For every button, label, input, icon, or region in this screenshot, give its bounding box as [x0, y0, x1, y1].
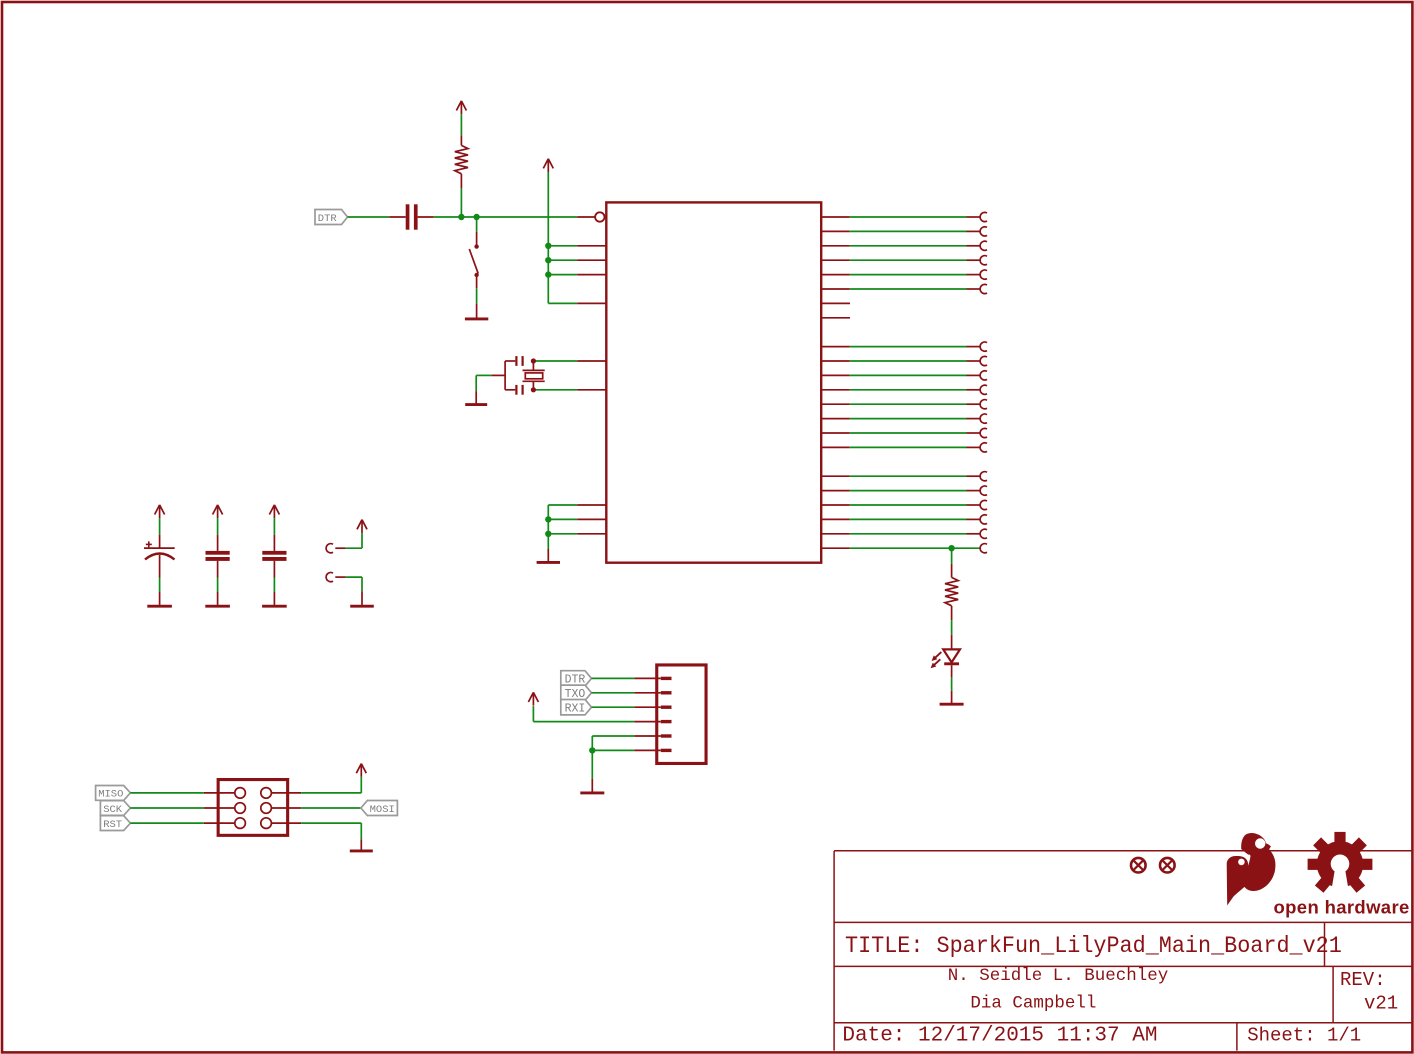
pin connector ADC7: [967, 428, 988, 437]
wire PWR- to ground: [346, 577, 362, 591]
U1 pin ADC7 stub: [821, 432, 850, 434]
resonator Y1 link top: [532, 361, 534, 370]
pin connector PWR-: [326, 573, 333, 582]
pin connector PD5: [967, 256, 988, 265]
pin connector ADC6: [967, 414, 988, 423]
svg-text:Dia Campbell: Dia Campbell: [970, 994, 1096, 1014]
wire PD0 net: [850, 547, 980, 549]
U1 pin PB1 stub: [821, 360, 850, 362]
switch S1 lead top: [476, 232, 478, 247]
U1 pin PD6 stub: [821, 274, 850, 276]
pin connector PC4 lead: [967, 518, 981, 520]
wire R2 to LED1: [951, 620, 953, 635]
node XTAL2 junction: [531, 387, 536, 392]
J1 pin 4 pad: [661, 720, 672, 723]
LED1 lead top: [951, 635, 953, 650]
pin connector PC2 lead: [967, 490, 981, 492]
node XTAL1 junction: [531, 358, 536, 363]
JP1 MOSI pin stub right: [271, 807, 301, 809]
rev value text: [1364, 993, 1398, 1015]
wire PB6 net: [850, 230, 967, 232]
wire XTAL2 net: [533, 389, 577, 391]
pin connector PB5: [967, 212, 988, 221]
svg-text:MOSI: MOSI: [370, 804, 395, 816]
pin connector PB1: [967, 356, 988, 365]
wire rail to U1 AREF pin: [548, 274, 577, 276]
resistor R2: [945, 577, 958, 605]
U1 pin PB7 stub: [821, 245, 850, 247]
LED D1 cathode bar: [944, 662, 959, 665]
title block frame: [834, 851, 1411, 1051]
wire JP1 GND: [301, 823, 361, 839]
pin connector PB2: [967, 371, 988, 380]
capacitor C2 (polarized): [144, 541, 175, 559]
net flag DTR at J1: [561, 671, 592, 687]
wire LED1 to ground: [951, 677, 953, 690]
wire DTR to J1: [592, 677, 635, 679]
resistor R1 lead bottom: [460, 174, 462, 189]
ground under crystal caps: [465, 403, 487, 406]
svg-text:Sheet: 1/1: Sheet: 1/1: [1247, 1025, 1361, 1047]
LED D1 emission arrow 2: [931, 659, 941, 668]
U1 pin PB6 stub: [821, 230, 850, 232]
wire J1 GND1: [592, 749, 634, 751]
power VCC at C2: [155, 505, 165, 535]
wire junction to R2: [951, 548, 953, 564]
date text: [842, 1025, 1157, 1048]
wire MISO to JP1: [130, 792, 203, 794]
pin connector PC3: [980, 500, 987, 509]
node RESET junction at S1: [473, 214, 479, 220]
author text line 2: [970, 994, 1096, 1014]
pin connector PC1: [980, 472, 987, 481]
node GND rail junction a: [545, 516, 551, 522]
pin connector PB4: [967, 400, 988, 409]
pin connector PB0: [967, 342, 988, 351]
J1 pin 3 pad: [661, 706, 672, 709]
wire rail to U1 AVCC pin: [548, 259, 577, 261]
wire SCK to JP1: [130, 807, 203, 809]
U1 pin PC5 stub: [821, 533, 850, 535]
wire PD5 net: [850, 259, 967, 261]
LED D1 emission arrow 1: [932, 652, 942, 661]
ground lead crystal: [475, 391, 477, 404]
ground under S1: [465, 317, 488, 320]
capacitor C5 (XTAL2 load): [515, 385, 523, 395]
net flag SCK: [100, 801, 130, 816]
pin connector PB7: [967, 241, 988, 250]
U1 pin PC4 stub: [821, 518, 850, 520]
ground lead PWR-: [361, 591, 363, 605]
wire PC4 net: [850, 518, 967, 520]
net flag MOSI: [361, 801, 398, 816]
wire RESET node to S1: [476, 217, 478, 232]
U1 VCC pin stub: [577, 245, 606, 247]
capacitor C1 lead right: [418, 216, 434, 218]
J1 pin 2 stub: [634, 692, 661, 694]
U1 pin PD7 stub: [821, 288, 850, 290]
wire VCC rail vertical: [548, 172, 577, 303]
JP1 pin circle right row 3: [261, 818, 272, 829]
ground under LED: [940, 703, 964, 706]
wire PD7 net: [850, 288, 967, 290]
wire S1 to ground: [476, 288, 478, 304]
wire cap bus to ground: [476, 375, 505, 391]
svg-text:DTR: DTR: [318, 213, 338, 225]
wire J1 ground drop: [591, 750, 593, 778]
wire PB5 net: [850, 216, 967, 218]
capacitor C5 lead: [505, 389, 515, 391]
U1 pin PB5 stub: [821, 216, 850, 218]
capacitor C2 lead bottom: [159, 555, 161, 578]
JP1 MISO pin stub: [204, 792, 235, 794]
JP1 VCC pin stub right: [271, 792, 301, 794]
JP1 GND pin stub right: [271, 822, 301, 824]
JP1 RST pin stub: [204, 822, 235, 824]
U1 pin ADC stub: [821, 317, 850, 319]
J1 pin 5 stub: [634, 735, 661, 737]
ground under C6: [262, 605, 287, 608]
logo OSHW gear: [1308, 832, 1373, 893]
node LED branch junction: [948, 545, 954, 551]
wire R1 to RESET node: [460, 188, 462, 217]
capacitor C4 lead: [505, 360, 515, 362]
ground under PWR-: [350, 605, 374, 608]
node GND rail junction b: [545, 531, 551, 537]
wire cap bus: [504, 361, 506, 390]
pin connector PC2: [980, 486, 987, 495]
resonator Y1 link bottom: [532, 381, 534, 390]
PWR+ pin stub: [335, 547, 345, 549]
ground lead C6: [273, 592, 275, 605]
node VCC rail junction pin AREF: [545, 271, 551, 277]
resistor R1 lead top: [460, 135, 462, 145]
svg-text:Date: 12/17/2015 11:37 AM: Date: 12/17/2015 11:37 AM: [842, 1025, 1157, 1048]
PWR- pin stub: [335, 576, 345, 578]
ground under C2: [147, 605, 172, 608]
net flag MISO: [96, 786, 131, 801]
svg-text:N. Seidle L. Buechley: N. Seidle L. Buechley: [948, 966, 1169, 986]
wire PWR+ to VCC: [346, 533, 362, 549]
U1 GND3 pin stub: [577, 533, 606, 535]
resonator Y1: [523, 370, 545, 381]
LED D1 triangle: [943, 649, 960, 662]
pin connector PB6: [967, 227, 988, 236]
wire RST to JP1: [130, 822, 203, 824]
capacitor C4 (XTAL1 load): [515, 356, 523, 366]
pin connector PB3: [967, 385, 988, 394]
wire PB3 net: [850, 389, 967, 391]
pin connector PD6: [967, 270, 988, 279]
wire JP1 MOSI: [301, 807, 361, 809]
pin connector PD0: [980, 544, 987, 553]
ground lead J1: [591, 779, 593, 793]
net flag DTR (reset line): [315, 210, 348, 225]
op-amp U1 (ATmega MCU box): [606, 202, 821, 562]
svg-text:RST: RST: [103, 819, 122, 831]
connector J1 (FTDI header): [657, 665, 706, 764]
capacitor C1 lead left: [389, 216, 405, 218]
pin connector PC5 lead: [967, 533, 981, 535]
capacitor C6: [262, 551, 286, 561]
svg-text:MISO: MISO: [98, 789, 123, 801]
wire ADC7 net: [850, 432, 967, 434]
power VCC at PWR+: [357, 520, 367, 533]
J1 pin 5 pad: [661, 734, 672, 737]
JP1 pin circle left row 1: [235, 788, 246, 799]
wire rail to U1 VCC pin: [548, 245, 577, 247]
power VCC at JP1: [356, 764, 366, 777]
U1 pin 6 stub: [577, 302, 606, 304]
wire PB2 net: [850, 374, 967, 376]
net flag RXI at J1: [561, 700, 592, 716]
svg-text:open hardware: open hardware: [1274, 897, 1410, 918]
wire PB7 net: [850, 245, 967, 247]
U1 AREF pin stub: [577, 274, 606, 276]
sheet text: [1247, 1025, 1361, 1047]
wire XTAL1 net: [533, 360, 577, 362]
ground lead U1: [547, 549, 549, 562]
wire GND3 to rail: [548, 533, 577, 535]
svg-text:REV:: REV:: [1340, 969, 1386, 991]
wire PD6 net: [850, 274, 967, 276]
JP1 pin circle right row 2: [261, 803, 272, 814]
wire GND2 to rail: [548, 518, 577, 520]
ground lead C3: [217, 592, 219, 605]
resistor R2 lead bottom: [951, 606, 953, 620]
wire C6 to ground: [273, 578, 275, 593]
node VCC rail junction pin VCC: [545, 243, 551, 249]
wire VCC to R1: [460, 114, 462, 135]
node J1 ground junction: [589, 747, 595, 753]
J1 pin 6 stub: [634, 749, 661, 751]
svg-text:TITLE: SparkFun_LilyPad_Main_B: TITLE: SparkFun_LilyPad_Main_Board_v21: [845, 932, 1342, 959]
U1 XTAL1 pin stub: [577, 360, 606, 362]
U1 pin PD0 stub: [821, 547, 850, 549]
wire PC0 net: [850, 446, 967, 448]
drill mark symbol 2: [1160, 858, 1175, 873]
net flag TXO at J1: [561, 685, 592, 701]
U1 GND2 pin stub: [577, 518, 606, 520]
J1 pin 1 stub: [634, 677, 661, 679]
wire PC3 net: [850, 504, 967, 506]
power VCC at C6: [269, 505, 279, 535]
pin connector PC1 lead: [967, 475, 981, 477]
logo SparkFun flame: [1227, 833, 1276, 905]
capacitor C3 lead top: [217, 535, 219, 551]
title text: [845, 932, 1342, 959]
svg-text:SCK: SCK: [103, 804, 123, 816]
wire PC2 net: [850, 490, 967, 492]
pin connector PC3 lead: [967, 504, 981, 506]
J1 pin 2 pad: [661, 691, 672, 694]
J1 pin 1 pad: [661, 677, 672, 680]
power VCC at J1: [528, 692, 538, 705]
power VCC above R1: [456, 101, 466, 114]
U1 GND1 pin stub: [577, 504, 606, 506]
ground lead JP1: [360, 839, 362, 850]
rev label text: [1340, 969, 1386, 991]
ground under C3: [205, 605, 230, 608]
U1 pin PC3 stub: [821, 504, 850, 506]
J1 pin 3 stub: [634, 706, 661, 708]
JP1 pin circle left row 3: [235, 818, 246, 829]
wire PC1 net: [850, 475, 967, 477]
pin connector PWR+: [326, 544, 333, 553]
JP1 pin circle right row 1: [261, 788, 272, 799]
J1 pin 4 stub: [634, 721, 661, 723]
U1 pin PB3 stub: [821, 389, 850, 391]
JP1 pin circle left row 2: [235, 803, 246, 814]
author text line 1: [948, 966, 1169, 986]
pin connector PC0: [967, 443, 988, 452]
U1 pin PC2 stub: [821, 490, 850, 492]
logo OSHW text: [1274, 897, 1410, 918]
ground lead LED: [951, 691, 953, 704]
U1 pin PB0 stub: [821, 346, 850, 348]
wire PC5 net: [850, 533, 967, 535]
U1 pin PB4 stub: [821, 403, 850, 405]
JP1 SCK pin stub: [204, 807, 235, 809]
capacitor C1: [406, 204, 418, 229]
ground lead under S1: [476, 304, 478, 319]
svg-text:v21: v21: [1364, 993, 1398, 1015]
capacitor C6 lead bottom: [273, 561, 275, 578]
wire GND rail drop: [547, 534, 549, 549]
wire C1 to U1 RESET pin: [434, 216, 578, 218]
capacitor C3 lead bottom: [217, 561, 219, 578]
pin connector PD7: [967, 284, 988, 293]
switch S1: [469, 244, 479, 277]
connector JP1 (ISP header): [218, 780, 288, 836]
net flag RST: [100, 816, 130, 831]
switch S1 lead bottom: [476, 275, 478, 288]
wire DTR flag to C1: [348, 216, 390, 218]
wire PB1 net: [850, 360, 967, 362]
wire ADC6 net: [850, 418, 967, 420]
capacitor C2 lead top: [159, 535, 161, 548]
U1 pin PD5 stub: [821, 259, 850, 261]
ground lead C2: [159, 592, 161, 605]
resistor R1: [455, 145, 468, 173]
U1 AVCC pin stub: [577, 259, 606, 261]
U1 RESET pin bubble: [595, 212, 604, 221]
wire GND1 to rail: [548, 504, 577, 506]
ground under J1: [580, 791, 604, 794]
capacitor C6 lead top: [273, 535, 275, 551]
power VCC rail arrow: [543, 159, 553, 172]
U1 XTAL2 pin stub: [577, 389, 606, 391]
ground under JP1: [350, 849, 373, 852]
U1 RESET pin stub: [577, 216, 595, 218]
drill mark symbol 1: [1131, 858, 1146, 873]
pin connector PC5: [980, 529, 987, 538]
wire PB4 net: [850, 403, 967, 405]
J1 pin 6 pad: [661, 749, 672, 752]
wire C3 to ground: [217, 578, 219, 593]
wire RXI to J1: [592, 706, 635, 708]
node VCC rail junction pin AVCC: [545, 257, 551, 263]
wire PB0 net: [850, 346, 967, 348]
U1 pin AREF2 stub: [821, 302, 850, 304]
wire VCC to J1: [533, 706, 634, 722]
capacitor C3: [206, 551, 230, 561]
wire C2 to ground: [159, 578, 161, 593]
power VCC at C3: [213, 505, 223, 535]
U1 pin PC0 stub: [821, 446, 850, 448]
wire TXO to J1: [592, 692, 635, 694]
resistor R2 lead top: [951, 564, 953, 578]
wire J1 GND2: [592, 736, 634, 750]
pin connector PC4: [980, 515, 987, 524]
U1 pin PB2 stub: [821, 374, 850, 376]
U1 pin ADC6 stub: [821, 418, 850, 420]
ground under U1: [537, 561, 560, 564]
node RESET junction at R1: [458, 214, 464, 220]
LED D1 lead bottom: [951, 665, 953, 677]
wire JP1 VCC: [301, 777, 361, 793]
svg-text:RXI: RXI: [565, 702, 586, 715]
U1 pin PC1 stub: [821, 475, 850, 477]
wire GND rail bottom-left: [547, 505, 549, 534]
